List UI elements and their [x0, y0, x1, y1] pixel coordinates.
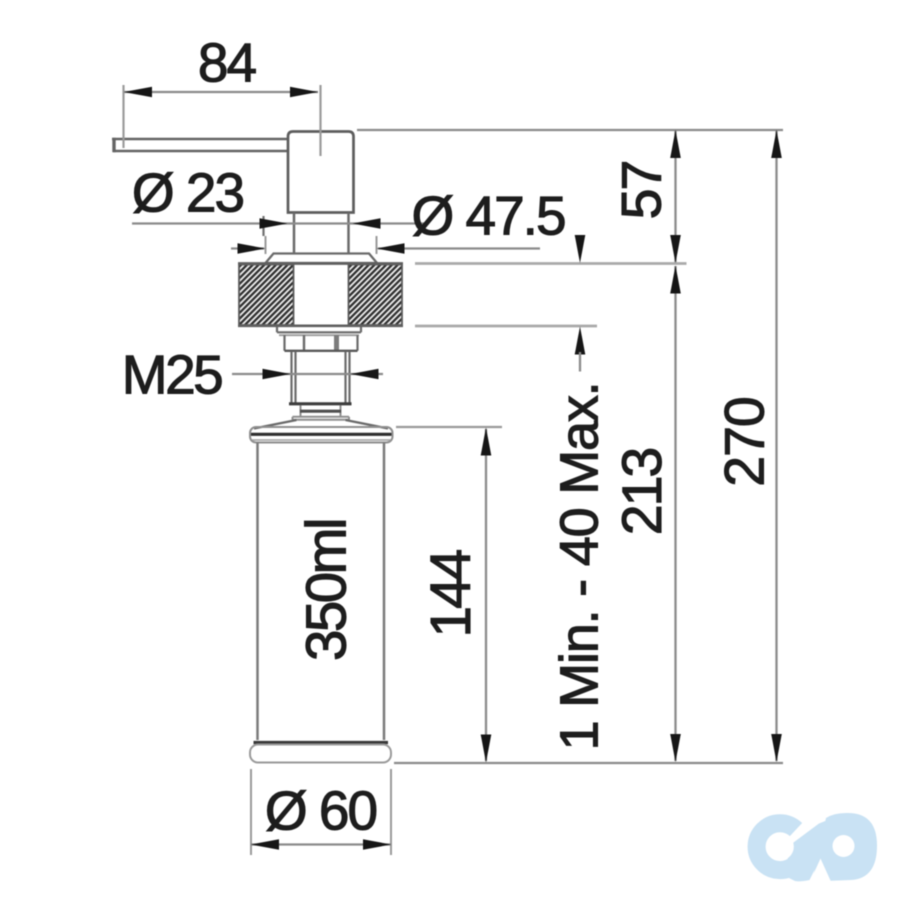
- counter top surface line: [238, 262, 403, 265]
- bottle shoulder cone: [254, 420, 388, 429]
- svg-text:1 Min. - 40 Max.: 1 Min. - 40 Max.: [550, 383, 610, 751]
- dimension 57: arrows: [670, 130, 681, 158]
- shaft bottom dark line: [289, 402, 352, 405]
- dimension D47.5: extension ticks: [265, 236, 267, 254]
- dimension 1Min-40Max: lower arrow + line: [575, 327, 586, 355]
- counter bottom surface line: [238, 324, 403, 327]
- dimension D23: leader line: [132, 222, 425, 224]
- dimension D47.5: arrows: [238, 243, 266, 254]
- svg-text:Ø 60: Ø 60: [265, 780, 377, 842]
- neck below head: [294, 213, 349, 254]
- dimension 1Min-40Max: upper arrow: [575, 235, 586, 263]
- bottle base band: [250, 745, 391, 763]
- dimension 270: line: [775, 131, 777, 761]
- dimension D23: extension tick left: [262, 216, 264, 236]
- logo notch: [808, 859, 833, 887]
- counter slab hatched left: [239, 265, 294, 326]
- top extension line: [357, 129, 783, 131]
- shop watermark logo (light blue) bottom right: [757, 813, 877, 886]
- svg-text:144: 144: [419, 550, 482, 637]
- spout tube: [112, 138, 288, 152]
- dimension M25: arrows: [263, 369, 291, 380]
- pump head: [288, 132, 354, 213]
- svg-text:213: 213: [611, 449, 673, 536]
- bottle shoulder band: [250, 427, 393, 443]
- dimension D47.5: leader lines: [231, 247, 264, 249]
- dimension D60: arrows: [251, 839, 279, 850]
- dimension 144: arrows: [481, 428, 492, 456]
- dimension M25: leader line: [232, 373, 383, 375]
- svg-text:Ø 23: Ø 23: [132, 162, 244, 224]
- extension line shoulder to 144 dim: [396, 426, 502, 428]
- dimension 213: arrows: [670, 266, 681, 294]
- dimension 84: arrows: [124, 87, 152, 98]
- logo band: [782, 814, 850, 882]
- counter bottom surface extension: [415, 325, 597, 328]
- locknut ring 2 collar: [285, 335, 358, 351]
- escutcheon flange (trapezoid): [266, 254, 378, 264]
- svg-text:270: 270: [714, 397, 776, 487]
- bottle neck collar dark line: [300, 410, 341, 413]
- dimension 270: arrows: [771, 130, 782, 158]
- dimension 57/213 line: [674, 131, 676, 262]
- head centre extension line: [319, 85, 321, 156]
- bottle neck collar: [293, 406, 350, 420]
- counter slab hatched right: [349, 265, 403, 326]
- bottle body sides: [258, 443, 385, 741]
- svg-text:57: 57: [611, 162, 673, 220]
- dimension D60: line: [251, 843, 391, 845]
- dimension D60: extension ticks: [250, 769, 252, 855]
- logo D blob: [812, 813, 877, 882]
- logo C hole: [766, 833, 794, 861]
- locknut ring 1 under counter: [277, 327, 361, 336]
- dimension 144: line: [485, 429, 487, 761]
- bottle bottom dark line: [254, 741, 389, 744]
- counter top surface extension: [415, 262, 687, 265]
- svg-text:M25: M25: [122, 344, 222, 406]
- logo D hole: [833, 835, 855, 857]
- bottom extension line: [394, 762, 783, 764]
- dimension 84: line: [124, 91, 318, 93]
- threaded shaft M25 walls: [292, 352, 350, 404]
- logo C ring: [757, 823, 796, 870]
- logo sliver: [792, 819, 819, 840]
- dimension D23: arrows: [260, 218, 288, 229]
- svg-text:350ml: 350ml: [295, 520, 358, 661]
- dimension 84: extension line left: [122, 85, 124, 148]
- svg-text:84: 84: [198, 32, 256, 94]
- svg-text:Ø 47.5: Ø 47.5: [411, 185, 565, 247]
